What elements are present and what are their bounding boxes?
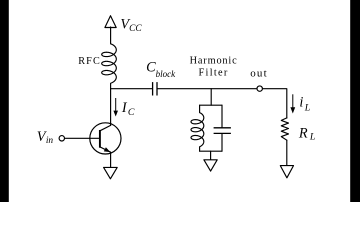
V_in input terminal bbox=[59, 136, 64, 141]
harmonic filter stub bbox=[210, 89, 212, 106]
current arrow i_L bbox=[290, 94, 295, 113]
left black bar bbox=[0, 0, 9, 202]
wire C_block to corner above R_L bbox=[157, 89, 287, 118]
ground under R_L bbox=[280, 166, 293, 178]
svg-text:out: out bbox=[250, 68, 268, 80]
svg-text:RFC: RFC bbox=[78, 56, 101, 67]
wire collector up to node A bbox=[110, 89, 112, 126]
tank inductor L1 (left branch) bbox=[191, 105, 204, 151]
transistor Q1 body circle bbox=[90, 123, 121, 154]
tank right branch upper bbox=[221, 105, 223, 127]
tank bottom bar bbox=[200, 150, 222, 152]
capacitor C_block plates bbox=[153, 82, 157, 95]
tank capacitor C1 plates bbox=[214, 128, 231, 134]
current arrow I_C bbox=[113, 98, 118, 117]
transistor base bar bbox=[99, 130, 101, 148]
ground under filter bbox=[204, 160, 217, 171]
tank right branch lower bbox=[221, 134, 223, 151]
out node terminal bbox=[257, 86, 262, 91]
inductor RFC (choke coil with feed wire) bbox=[102, 27, 117, 89]
svg-text:Filter: Filter bbox=[199, 68, 229, 79]
right black bar bbox=[350, 0, 360, 202]
transistor emitter arrowhead bbox=[104, 147, 111, 152]
tank top bar bbox=[200, 104, 222, 106]
emitter wire down bbox=[110, 152, 112, 167]
stub to filter ground bbox=[210, 151, 212, 160]
base wire from V_in bbox=[65, 137, 100, 139]
collector diagonal bbox=[100, 125, 111, 130]
emitter diagonal bbox=[100, 147, 111, 152]
wire node A to C_block bbox=[111, 88, 153, 90]
ground under transistor bbox=[104, 167, 118, 178]
wire R_L to ground bbox=[286, 140, 288, 165]
resistor R_L zigzag bbox=[281, 118, 288, 140]
svg-text:Harmonic: Harmonic bbox=[190, 56, 238, 67]
power symbol V_CC (open up-arrow) bbox=[105, 16, 116, 28]
